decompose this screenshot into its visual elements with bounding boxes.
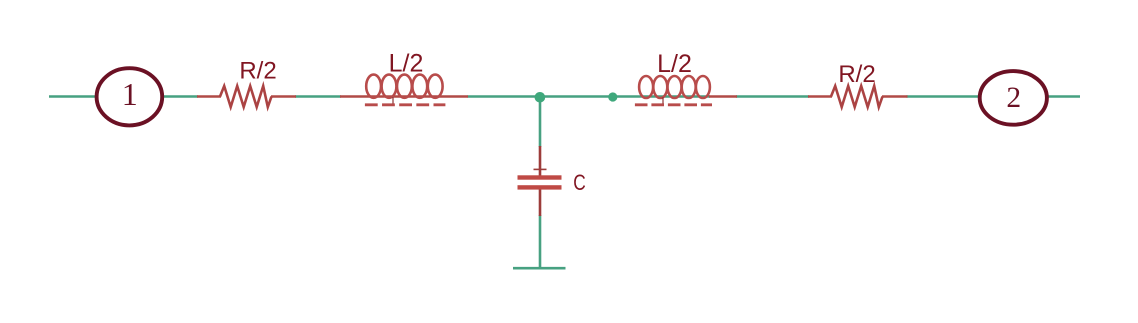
svg-text:2: 2 <box>1006 82 1021 114</box>
svg-text:L/2: L/2 <box>389 50 424 78</box>
svg-text:R/2: R/2 <box>239 57 276 84</box>
svg-text:R/2: R/2 <box>838 61 875 88</box>
svg-text:1: 1 <box>122 76 138 112</box>
svg-text:C: C <box>573 170 586 195</box>
svg-text:L/2: L/2 <box>657 50 692 78</box>
